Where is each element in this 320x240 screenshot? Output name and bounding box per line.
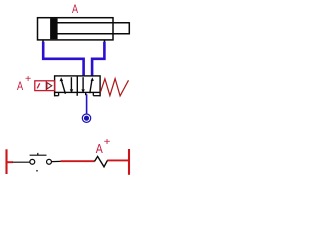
svg-text:+: + — [104, 137, 111, 148]
svg-text:A: A — [96, 141, 103, 156]
svg-text:+: + — [25, 74, 31, 85]
svg-text:A: A — [72, 2, 79, 16]
svg-text:A: A — [17, 79, 24, 93]
